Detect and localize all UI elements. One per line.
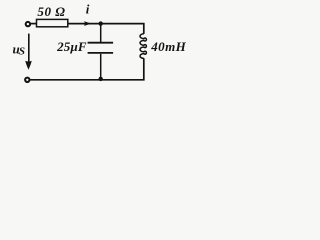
svg-text:50 Ω: 50 Ω xyxy=(37,4,65,19)
svg-text:i: i xyxy=(86,2,90,17)
svg-text:S: S xyxy=(19,46,25,58)
svg-text:40mH: 40mH xyxy=(150,39,186,54)
svg-text:25μF: 25μF xyxy=(56,39,87,54)
